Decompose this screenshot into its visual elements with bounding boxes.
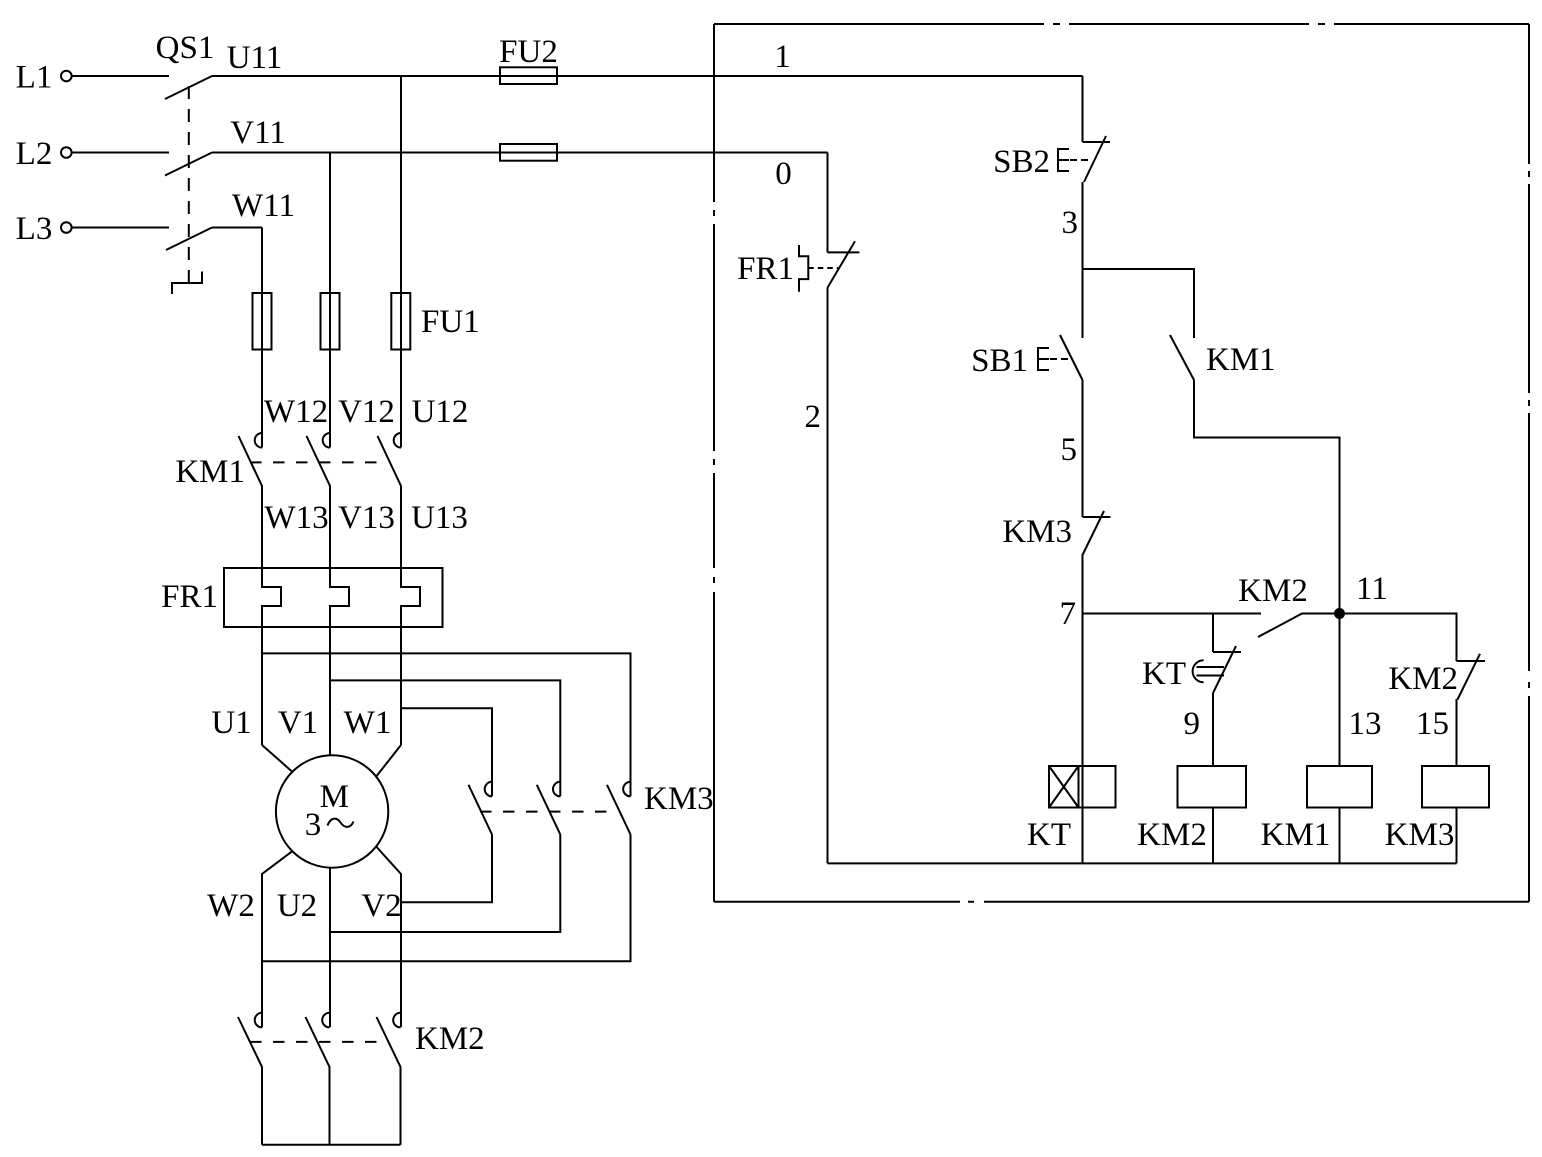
svg-text:FR1: FR1 <box>161 579 218 615</box>
wire U13 segment <box>400 350 402 448</box>
wire V12 drop <box>329 153 331 351</box>
svg-text:W13: W13 <box>264 500 328 536</box>
svg-text:KT: KT <box>1142 656 1186 692</box>
coil KM2 <box>1178 766 1247 808</box>
KM1 linkage dashed <box>250 461 388 463</box>
svg-text:U2: U2 <box>277 888 317 924</box>
coil KM1 <box>1307 766 1372 808</box>
svg-text:KM1: KM1 <box>1206 342 1276 378</box>
wire phase1 below FR1 <box>261 627 263 745</box>
wire KT contact to KM2 coil <box>1212 693 1214 766</box>
wire SB2 to node3 <box>1082 182 1084 338</box>
wire L3 to QS1 <box>72 227 169 229</box>
svg-text:U12: U12 <box>412 394 469 430</box>
frame border right <box>1528 24 1530 902</box>
fuse FU2b <box>500 144 557 161</box>
motor lead W1 funnel <box>376 745 401 777</box>
svg-text:11: 11 <box>1356 571 1388 607</box>
svg-text:V12: V12 <box>338 394 395 430</box>
svg-text:L1: L1 <box>16 60 53 96</box>
frame border bottom <box>714 901 1529 903</box>
frame border left <box>713 24 715 902</box>
wire FR1 contact down to rail <box>827 288 829 863</box>
svg-text:L2: L2 <box>16 136 53 172</box>
wire node11 down to KM1 coil <box>1339 614 1341 767</box>
thermal relay FR1 box <box>224 568 443 627</box>
coil KM3 <box>1422 766 1489 808</box>
svg-text:SB1: SB1 <box>971 343 1028 379</box>
wire W13 segment <box>261 350 263 448</box>
svg-text:KM1: KM1 <box>175 454 245 490</box>
wire node11 right to KM2 NC <box>1340 614 1457 662</box>
svg-text:2: 2 <box>805 399 822 435</box>
wire L1 to QS1 <box>72 75 169 77</box>
svg-text:U1: U1 <box>211 705 251 741</box>
QS1 pole 2 blade <box>165 153 212 176</box>
svg-text:U11: U11 <box>227 40 283 76</box>
wire coil KM1 to rail <box>1339 808 1341 864</box>
svg-text:KM2: KM2 <box>1238 573 1308 609</box>
svg-text:3: 3 <box>305 807 322 843</box>
svg-text:W1: W1 <box>344 705 392 741</box>
wire node1 down to SB2 <box>1082 76 1084 142</box>
wire node7 horizontal <box>1083 613 1262 615</box>
bottom rail wire <box>828 862 1457 864</box>
svg-text:W2: W2 <box>207 888 255 924</box>
wire tap V to KM3 middle column <box>330 680 560 796</box>
KM3 pole 3 <box>607 782 631 835</box>
svg-text:1: 1 <box>774 39 791 75</box>
svg-text:13: 13 <box>1349 706 1382 742</box>
fuse FU2a <box>500 67 557 84</box>
FR1 heater 3 <box>401 568 420 627</box>
svg-text:V11: V11 <box>230 115 286 151</box>
wire KM3 pole2 bottom to U2 <box>330 835 560 933</box>
wire phase2 below FR1 <box>329 627 331 756</box>
KM2 star bar <box>262 1144 401 1146</box>
wire KM2 NC to KM3 coil <box>1456 699 1458 766</box>
QS1 linkage dashed <box>188 86 190 283</box>
svg-text:7: 7 <box>1060 596 1077 632</box>
svg-text:0: 0 <box>775 156 792 192</box>
svg-text:KM2: KM2 <box>1137 817 1207 853</box>
svg-text:V13: V13 <box>338 500 395 536</box>
svg-text:KM3: KM3 <box>1002 514 1072 550</box>
wire W12 drop <box>261 228 263 351</box>
motor lead U1 funnel <box>262 745 293 772</box>
QS1 handle <box>172 272 202 295</box>
wire phase3 below FR1 <box>400 627 402 745</box>
QS1 pole 1 blade <box>165 76 212 99</box>
KM3 linkage dashed <box>480 811 618 813</box>
svg-text:L3: L3 <box>16 211 53 247</box>
KM1 pole 1 <box>239 433 263 568</box>
wire V13 segment <box>329 350 331 448</box>
svg-text:KM1: KM1 <box>1261 817 1331 853</box>
wire KM1 aux down and over to node11 column <box>1194 380 1340 614</box>
svg-text:W11: W11 <box>232 188 295 224</box>
wire coil KT to rail <box>1082 808 1084 864</box>
frame border top <box>714 23 1529 25</box>
svg-text:M: M <box>320 779 349 815</box>
KM2 pole 2 <box>306 1013 330 1145</box>
svg-text:KT: KT <box>1027 817 1071 853</box>
wire L2 to QS1 <box>72 152 169 154</box>
KM2 pole 3 <box>377 1013 401 1145</box>
wire SB1 to node5/KM3 <box>1082 380 1084 517</box>
svg-text:KM2: KM2 <box>415 1021 485 1057</box>
svg-text:KM3: KM3 <box>644 781 714 817</box>
svg-text:FU2: FU2 <box>499 34 558 70</box>
wire node3 branch to KM1 <box>1083 269 1195 338</box>
KM2 pole 1 <box>238 1013 262 1145</box>
KM3 pole 1 <box>469 782 493 835</box>
wire U12 drop <box>400 76 402 350</box>
motor lead V2 funnel <box>376 847 401 1028</box>
motor lead U2 wire <box>329 867 331 1027</box>
FR1 heater 1 <box>262 568 281 627</box>
QS1 pole 3 blade <box>166 228 212 251</box>
KM2 linkage dashed <box>250 1041 388 1043</box>
wire KM3 pole3 bottom to W2 <box>262 835 631 962</box>
svg-text:15: 15 <box>1416 706 1449 742</box>
svg-text:V1: V1 <box>278 705 318 741</box>
wire tap W to KM3 left column <box>401 708 492 796</box>
svg-text:9: 9 <box>1184 706 1201 742</box>
svg-text:W12: W12 <box>264 394 328 430</box>
fuse FU1c <box>391 293 410 350</box>
fuse FU1b <box>321 293 340 350</box>
node 11 dot <box>1334 608 1345 619</box>
svg-text:V2: V2 <box>361 888 401 924</box>
wire coil KM2 to rail <box>1212 808 1214 864</box>
svg-text:KM2: KM2 <box>1388 661 1458 697</box>
wire KM3 to node7 and KT coil <box>1082 556 1084 766</box>
svg-text:3: 3 <box>1062 205 1079 241</box>
svg-text:5: 5 <box>1061 432 1078 468</box>
svg-text:FR1: FR1 <box>737 251 794 287</box>
KM1 pole 2 <box>307 433 331 568</box>
svg-text:FU1: FU1 <box>421 304 480 340</box>
svg-text:U13: U13 <box>411 500 468 536</box>
KM3 pole 2 <box>537 782 561 835</box>
motor lead W2 funnel <box>262 851 293 1027</box>
KM1 pole 3 <box>378 433 402 568</box>
coil KT (with X box) <box>1049 766 1116 808</box>
FR1 heater 2 <box>330 568 349 627</box>
svg-text:QS1: QS1 <box>156 30 215 66</box>
svg-text:KM3: KM3 <box>1385 817 1455 853</box>
wire tap U to KM3 right column <box>262 653 631 796</box>
motor M circle <box>276 755 388 867</box>
fuse FU1a <box>253 293 272 350</box>
wire KM3 pole1 bottom to V2 <box>401 835 492 903</box>
wire node0 down to FR1 contact <box>827 153 829 253</box>
svg-text:SB2: SB2 <box>993 144 1050 180</box>
wire coil KM3 to rail <box>1456 808 1458 864</box>
